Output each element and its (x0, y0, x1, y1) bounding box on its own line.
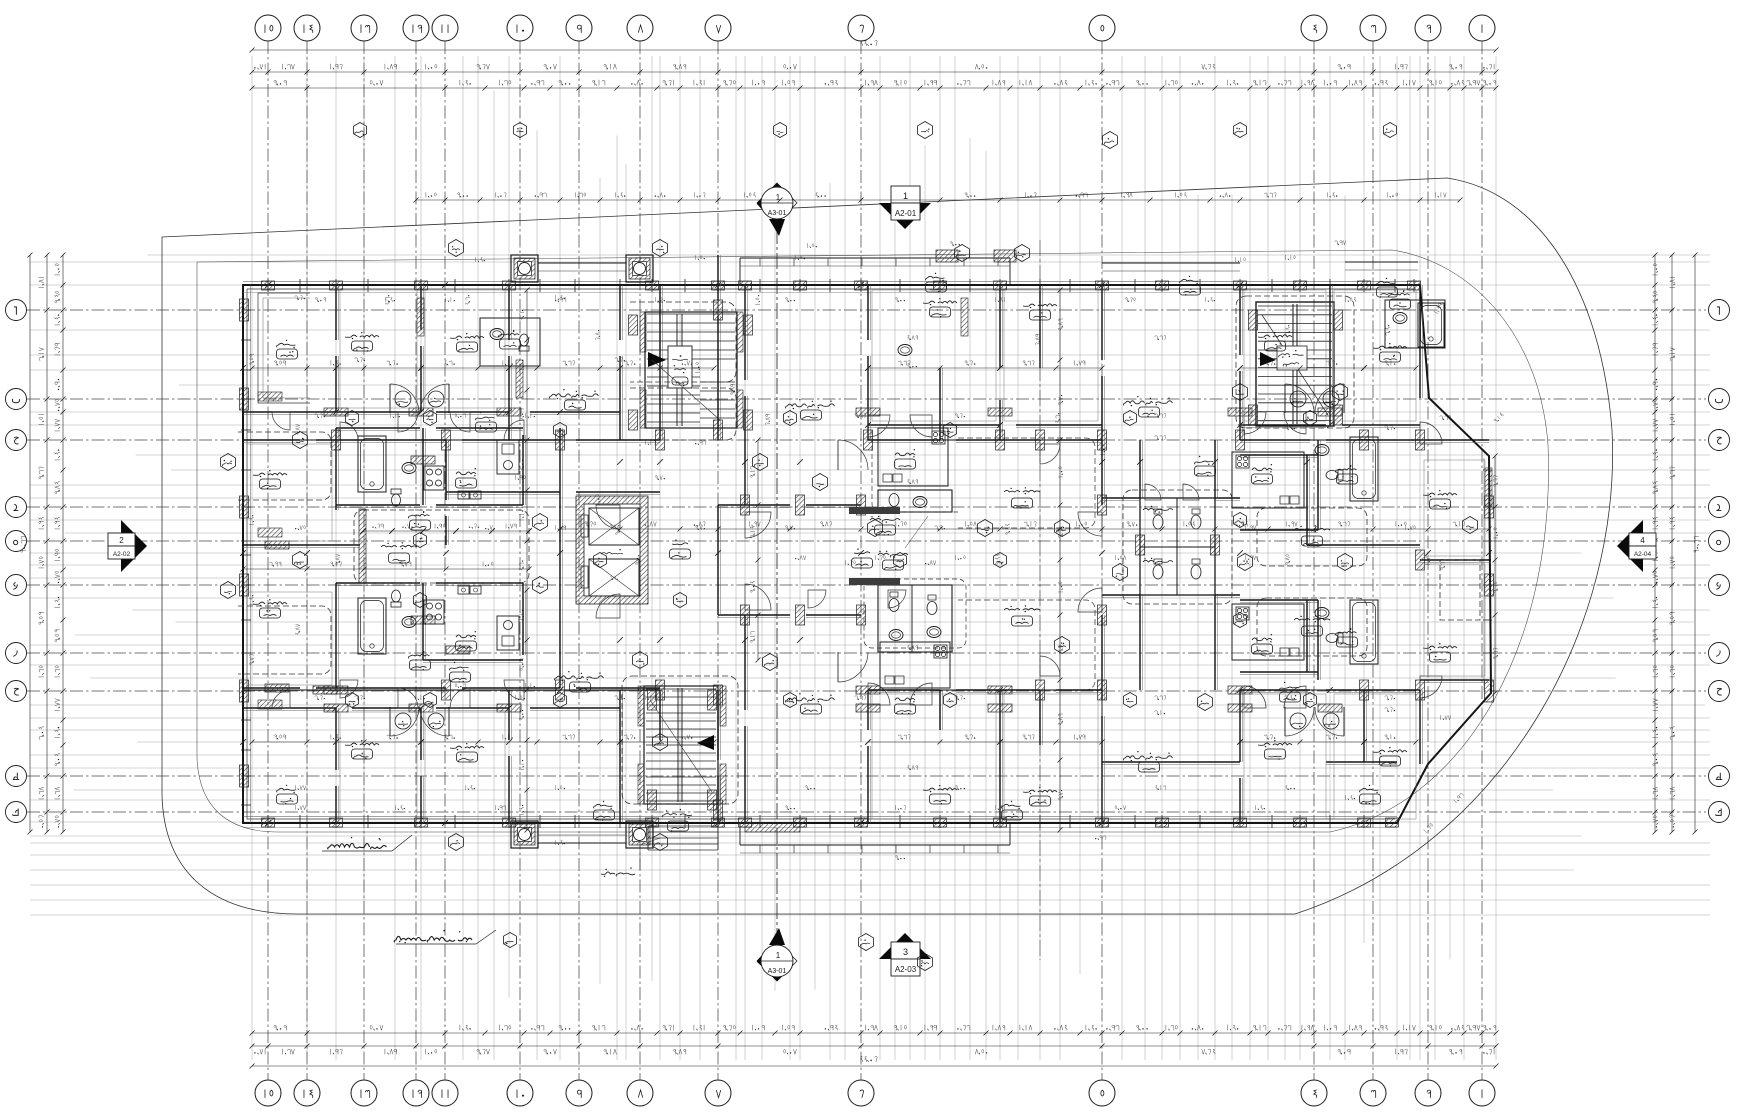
left dimension column (wall offsets) (54, 253, 65, 835)
setback line (had alirtidad) (197, 250, 1549, 832)
toilet right upper (1326, 470, 1343, 480)
svg-text:A2-03: A2-03 (895, 965, 917, 974)
double sink left lower (458, 586, 469, 594)
centre WC pod upper (849, 430, 958, 514)
top dimension row (grid spacing) (250, 64, 1499, 75)
bath top right apt (1385, 300, 1445, 348)
main stair (bottom, left core) (622, 676, 738, 832)
right dimension column (grid spacing) (1669, 253, 1674, 835)
left outer overall dimension (29, 255, 31, 832)
entrance paving hatch (745, 823, 800, 832)
room labels - terraces (277, 273, 1398, 821)
light well right outer (1440, 560, 1480, 620)
top overall dimension line 44.06 (252, 49, 1496, 51)
building outer wall inner face (247, 289, 1416, 819)
toilet right lower (1326, 633, 1343, 643)
light well left lower (238, 606, 331, 674)
window band right wall (1483, 458, 1492, 690)
room ceiling dashed outlines (247, 290, 1485, 819)
double door entry bottom-left apartment (390, 707, 449, 736)
bathtub right lower (1350, 600, 1378, 664)
light well centre lower (958, 600, 1095, 690)
wall intersection ticks (240, 282, 1492, 826)
entrance steps at bottom (648, 826, 718, 850)
interior dim chain mid band (241, 521, 1492, 571)
bathtub left apartment lower (358, 598, 386, 654)
top terrace planter left (511, 255, 538, 282)
internal walls vertical (336, 255, 1423, 823)
vertical grid lines (dashed, 1-15) (268, 41, 1482, 1080)
top mid-right terrace railing (1102, 262, 1240, 264)
double door entry bottom-right apartment (1285, 707, 1344, 736)
light well mid-left (354, 509, 529, 583)
extra hatch wall strips (258, 298, 1492, 709)
double door entry top-left apartment (390, 384, 449, 413)
light well centre upper (958, 438, 1095, 528)
kitchen right upper (1232, 452, 1304, 508)
svg-text:A2-01: A2-01 (895, 209, 917, 218)
svg-text:2: 2 (119, 536, 124, 545)
scattered micro dimensions (249, 240, 1504, 859)
kitchen right lower (1232, 604, 1304, 660)
light well right lower (1257, 598, 1367, 656)
match dash-dot line (1039, 240, 1041, 960)
service stair (top, left core) (630, 302, 743, 440)
svg-text:A3-01: A3-01 (768, 210, 787, 217)
right grid letter bubbles (1709, 300, 1730, 823)
right core WC block (1123, 490, 1232, 604)
section bubble A3-01 (bottom) (757, 928, 797, 981)
top centre terrace planter boxes (936, 250, 958, 262)
bottom grid bubbles 15..1 (255, 1080, 1495, 1106)
service stair (right core) (1236, 296, 1354, 428)
setback label - had alirtidad (322, 835, 412, 851)
light well left upper (238, 432, 331, 500)
section marker A2-02 (left) (108, 520, 147, 572)
svg-text:4: 4 (1640, 536, 1645, 545)
left dimension column (grid spacing) (38, 253, 49, 835)
toilet left lower (391, 590, 401, 607)
internal walls horizontal (243, 412, 1491, 765)
svg-text:1: 1 (903, 191, 908, 201)
top right terrace railing (1345, 261, 1418, 263)
section cut dash-dot line (776, 228, 778, 940)
upper offset dim chain (414, 192, 1463, 202)
bottom terrace planter left (511, 821, 538, 848)
svg-text:A2-04: A2-04 (1634, 551, 1652, 558)
top grid bubbles 15..1 (255, 15, 1495, 41)
light well right (1257, 508, 1367, 566)
kitchen counter left upper (497, 440, 519, 474)
bathtub left apartment upper (358, 436, 386, 492)
room labels - kitchens (456, 449, 1273, 714)
bathtub right upper (1350, 437, 1378, 501)
sink left lower (402, 617, 416, 628)
vertical interior dims (519, 288, 1498, 833)
room labels - living/dining (549, 389, 1172, 773)
elevator shafts (576, 496, 648, 604)
sink right lower (1315, 608, 1329, 619)
structural columns (240, 281, 1494, 827)
svg-text:A3-01: A3-01 (768, 968, 787, 975)
upper WC pod centre (800, 505, 960, 565)
label - fire box (601, 838, 660, 877)
bottom terrace planter right (626, 821, 653, 848)
bottom terrace railing (538, 842, 626, 844)
section bubble A3-01 (top) (757, 183, 797, 236)
window band bottom wall (243, 815, 1397, 828)
bottom overall dimension line 44.06 (252, 1065, 1496, 1067)
left grid letter bubbles (6, 300, 27, 823)
top terrace planter right (626, 255, 653, 282)
section marker A2-01 (top) (879, 186, 931, 229)
right outer overall dimension (1694, 255, 1696, 832)
bottom dimension row (wall offsets) (250, 1025, 1499, 1036)
double door entry top-right apartment (1285, 384, 1344, 413)
double sink left upper (458, 491, 469, 499)
centre hall door arcs (838, 440, 868, 682)
svg-text:A2-02: A2-02 (113, 551, 131, 558)
kitchen centre lower (880, 642, 950, 688)
section marker A2-03 (bottom) (879, 933, 931, 976)
spine wall emphasis (243, 285, 1420, 823)
window band top wall (243, 279, 1420, 293)
kitchen counter left lower (497, 616, 519, 650)
plot boundary label - had qit3at alard (394, 930, 496, 944)
bottom dimension row (grid spacing) (250, 1044, 1499, 1055)
svg-text:3: 3 (903, 947, 908, 957)
window band left wall (241, 285, 251, 823)
horizontal grid lines (dashed, alef-kaf) (27, 310, 1706, 812)
wc label centre (878, 516, 928, 570)
toilet left upper (391, 489, 401, 506)
wash basin top centre (898, 345, 912, 356)
interior dim chain upper band (250, 360, 1419, 370)
right dimension column (wall offsets) (1652, 253, 1657, 835)
room labels - corridors (450, 412, 1301, 702)
kitchen burners left upper (424, 466, 444, 490)
door swings (272, 412, 1442, 708)
room labels - bedrooms (253, 298, 1457, 806)
building outer wall (243, 285, 1491, 823)
kitchen burners left lower (424, 600, 444, 624)
interior dim chain lower band (250, 734, 1419, 744)
top dimension row (wall offsets) (250, 80, 1499, 91)
terrace outline top-left (258, 293, 310, 403)
kitchen centre upper (878, 428, 948, 486)
svg-text:1: 1 (776, 193, 781, 202)
plot boundary (had qit3at alard) (162, 178, 1613, 914)
sink right upper (1315, 445, 1329, 456)
hexagon tags (221, 122, 1478, 971)
bottom centre terrace railing (740, 844, 1010, 846)
top terrace railing between planters (538, 262, 626, 264)
svg-text:1: 1 (776, 951, 781, 960)
bath top left apt (480, 318, 540, 366)
label - bastah (landing) (672, 539, 688, 544)
room labels - bathrooms (408, 290, 1410, 670)
top centre terrace railing (740, 257, 1010, 259)
centre WC pod lower (849, 578, 966, 652)
sink left upper (402, 463, 416, 474)
section marker A2-04 (right) (1617, 520, 1656, 572)
